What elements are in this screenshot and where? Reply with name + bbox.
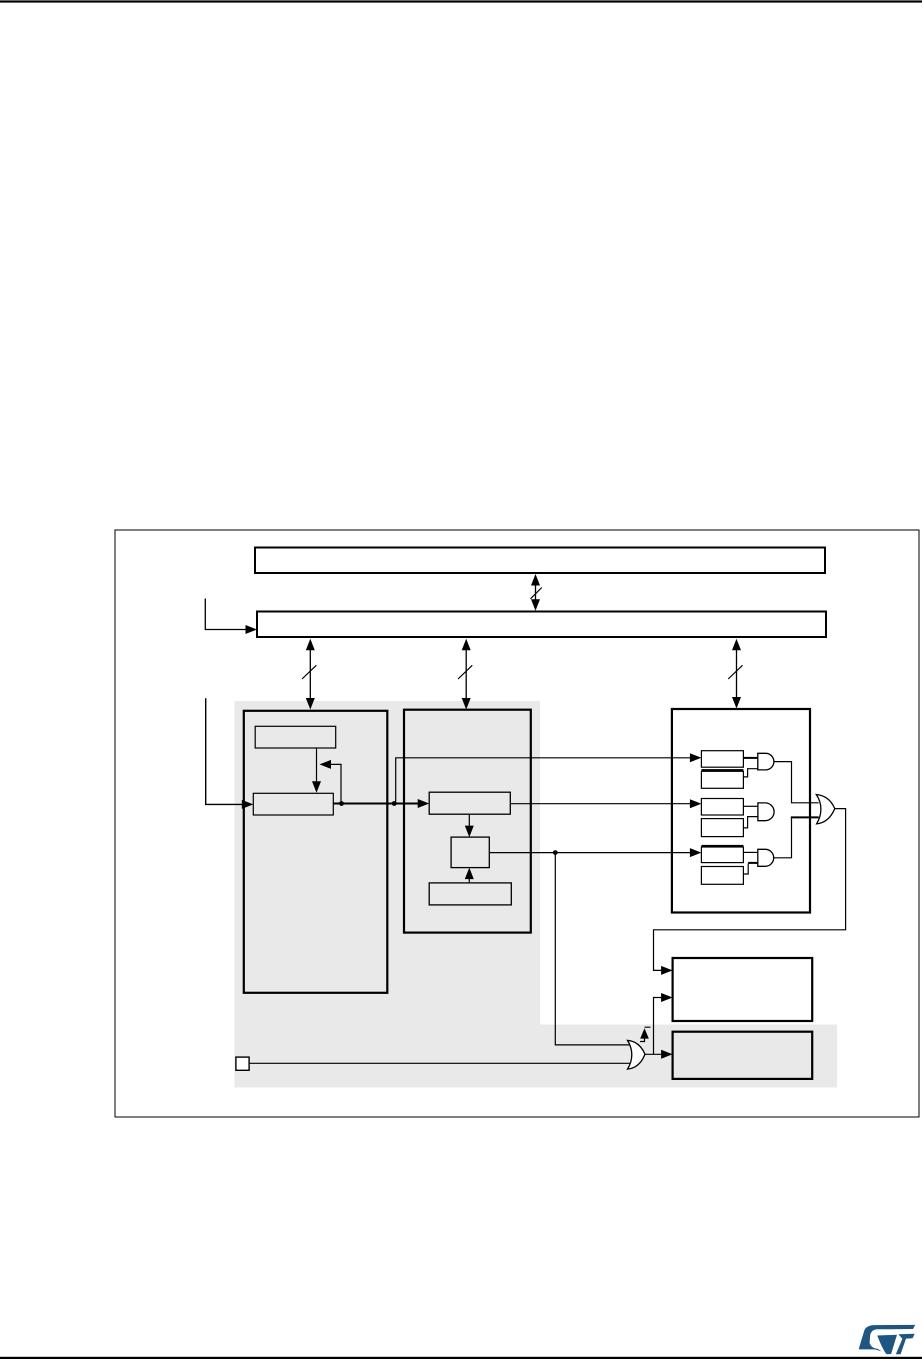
wire M1 to S1 bbox=[468, 814, 470, 828]
register L3 bbox=[701, 867, 743, 885]
block A (left register block) bbox=[244, 711, 387, 993]
wire U1 to AND1 (thick) bbox=[743, 757, 757, 759]
node J3 bbox=[553, 850, 558, 855]
footer rule bbox=[0, 1357, 922, 1359]
wire L3 to AND3 thick segment bbox=[748, 862, 758, 864]
register U3 bbox=[701, 847, 743, 863]
thick bit band 1 bbox=[701, 769, 743, 771]
node J1 bbox=[339, 801, 344, 806]
register L1 bbox=[701, 771, 743, 788]
bus width slash 1 bbox=[302, 665, 316, 679]
wire OR2 output to G1 bbox=[645, 1053, 663, 1055]
AND gate A3 bbox=[758, 849, 774, 866]
block B (counter block) bbox=[404, 710, 531, 933]
wire entry into bus 2 bbox=[205, 599, 246, 630]
wire bus2 to block B bidirectional bbox=[465, 644, 467, 704]
wire reload feedback bbox=[329, 764, 341, 803]
block S1 (divider) bbox=[451, 837, 489, 868]
block C (compare block) bbox=[672, 709, 810, 913]
wire L3 to AND3 step bbox=[743, 863, 757, 874]
wire to W1 second input bbox=[654, 998, 663, 1055]
register L2 bbox=[701, 819, 743, 837]
header rule bbox=[0, 0, 922, 2]
wire OR1 lower input (thick) bbox=[791, 816, 819, 818]
wire AND1 to OR1 bbox=[774, 762, 819, 803]
wire bus1-bus2 bidirectional bbox=[535, 580, 537, 605]
block W1 bbox=[673, 958, 813, 1021]
bus 2 (peripheral bus) bbox=[257, 612, 826, 638]
wire M1 to comparator 2 input bbox=[510, 803, 691, 805]
AND gate A2 bbox=[758, 803, 774, 821]
wire L2 to AND2 step bbox=[743, 817, 758, 828]
shaded region (clock domain) bbox=[235, 701, 838, 1088]
bus width slash 2 bbox=[458, 665, 472, 679]
wire to comparator 1 input bbox=[396, 758, 691, 804]
wire P1 to OR2 input 2 bbox=[249, 1062, 630, 1064]
register R1 bbox=[255, 726, 336, 748]
register U1 bbox=[701, 751, 743, 768]
bus width slash 0 bbox=[531, 588, 542, 599]
wire R1 to R2 bbox=[316, 748, 318, 784]
register U2 bbox=[701, 799, 743, 816]
figure frame bbox=[115, 530, 919, 1117]
thick bit band 3 bbox=[701, 845, 743, 847]
pad P1 bbox=[236, 1057, 249, 1070]
OR gate O1 bbox=[816, 795, 835, 824]
bus 1 (top bus) bbox=[255, 548, 825, 574]
wire S1 branch to OR2 input 1 bbox=[555, 853, 630, 1045]
node J2 bbox=[392, 801, 397, 806]
rising edge symbol bbox=[640, 1027, 650, 1041]
wire U2 to AND2 bbox=[743, 805, 758, 807]
ST logo bbox=[859, 1325, 915, 1354]
OR gate O2 bbox=[628, 1040, 646, 1069]
register M1 (counter) bbox=[429, 792, 510, 814]
wire R2 output (thick) bbox=[333, 803, 419, 805]
wire entry into R2 bbox=[206, 698, 243, 804]
register R3 bbox=[429, 883, 511, 905]
wire L1 to AND1 step bbox=[743, 769, 757, 777]
register R2 bbox=[253, 793, 333, 815]
wire U3 to AND3 bbox=[743, 851, 757, 853]
block G1 bbox=[673, 1032, 813, 1079]
wire AND3 to OR1 bbox=[774, 818, 792, 857]
wire bus2 to block C bidirectional bbox=[736, 644, 738, 703]
wire S1 to comparator 3 input bbox=[489, 852, 691, 854]
wire R3 to S1 bbox=[468, 876, 470, 883]
bus width slash 3 bbox=[728, 665, 742, 679]
AND gate A1 bbox=[758, 753, 774, 770]
wire OR1 output to W1 bbox=[654, 809, 846, 971]
wire bus2 to block A bidirectional bbox=[309, 644, 311, 704]
